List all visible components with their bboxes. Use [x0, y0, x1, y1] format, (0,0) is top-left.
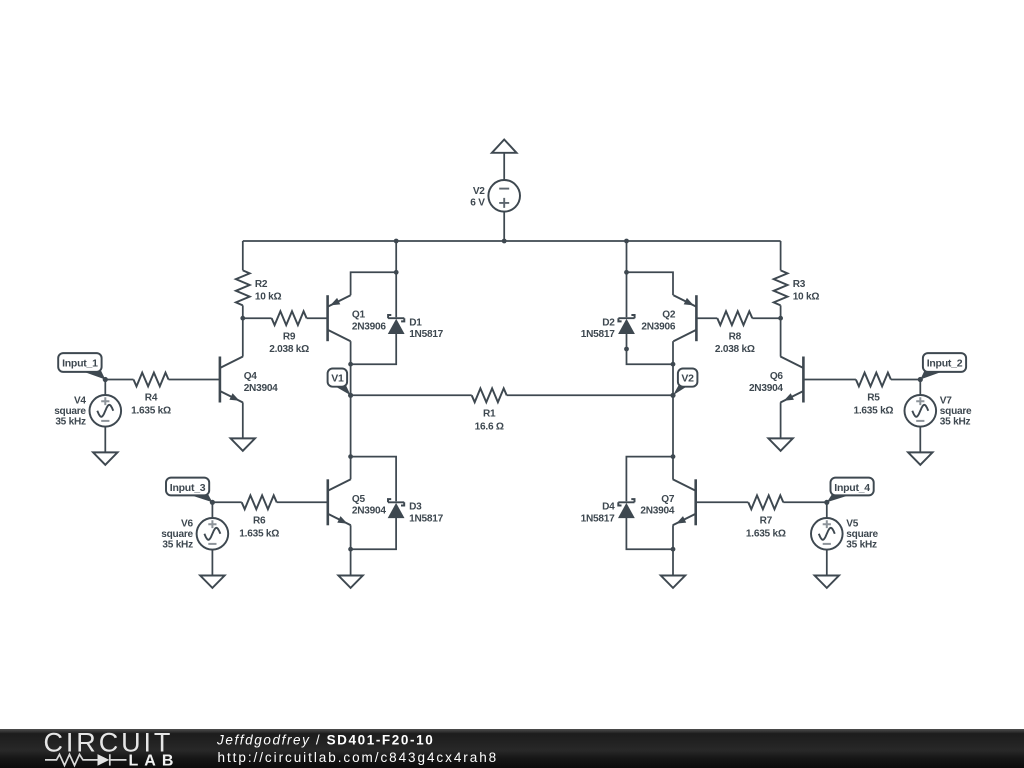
voltage source V6: [161, 518, 228, 551]
diode D1: [388, 315, 444, 340]
svg-text:35 kHz: 35 kHz: [162, 540, 193, 551]
wire V4 to ground: [104, 427, 106, 453]
svg-text:Q1: Q1: [352, 310, 366, 321]
svg-text:V4: V4: [74, 396, 86, 407]
svg-text:1N5817: 1N5817: [581, 329, 615, 340]
svg-text:2.038 kΩ: 2.038 kΩ: [269, 344, 309, 355]
wire V2 source to power flag: [503, 153, 505, 180]
transistor Q4: [220, 357, 278, 403]
svg-text:Input_2: Input_2: [927, 357, 963, 369]
flag Input_3: [166, 478, 215, 505]
svg-text:D2: D2: [602, 317, 615, 328]
wire V7 to input node: [919, 380, 921, 396]
svg-text:D4: D4: [602, 502, 615, 513]
node bus-D1 junction: [394, 239, 399, 244]
wire V7 to ground: [919, 427, 921, 453]
svg-text:2N3904: 2N3904: [749, 383, 783, 394]
svg-text:2.038 kΩ: 2.038 kΩ: [715, 344, 755, 355]
voltage source V7: [905, 395, 973, 428]
svg-text:R4: R4: [145, 393, 158, 404]
voltage source V5: [811, 518, 879, 551]
wire node V2 to D4 cathode: [626, 457, 673, 502]
resistor R5: [803, 373, 920, 417]
transistor Q5: [328, 479, 387, 525]
node D1-emitter junction: [394, 270, 399, 275]
voltage source V2: [470, 180, 520, 212]
svg-text:Jeffdgodfrey / SD401-F20-10: Jeffdgodfrey / SD401-F20-10: [216, 733, 434, 748]
svg-text:2N3906: 2N3906: [352, 322, 386, 333]
wire Q7 collector stub: [672, 457, 674, 480]
ground below Q7: [661, 576, 685, 588]
wire Q7 emitter to junction: [672, 525, 674, 549]
wire D3 anode to Q5 emitter: [351, 518, 397, 550]
wire V5 to ground: [826, 550, 828, 576]
node R2-R9-Q4 junction: [240, 316, 245, 321]
svg-text:D1: D1: [409, 317, 422, 328]
wire Q2 emitter to D2 branch: [627, 272, 674, 295]
svg-text:1.635 kΩ: 1.635 kΩ: [746, 528, 786, 539]
svg-text:R8: R8: [729, 331, 742, 342]
svg-text:10 kΩ: 10 kΩ: [255, 291, 282, 302]
svg-text:V1: V1: [331, 373, 344, 385]
svg-text:V2: V2: [681, 373, 694, 385]
wire D2 anode to Q2 collector: [627, 334, 674, 365]
wire V6 to ground: [211, 550, 213, 576]
svg-text:square: square: [846, 529, 878, 540]
svg-text:R3: R3: [793, 279, 806, 290]
ground below Q4: [231, 438, 255, 450]
svg-text:square: square: [54, 406, 86, 417]
node bus-D2 junction: [624, 239, 629, 244]
wire Q2 collector to node V2: [672, 341, 674, 456]
svg-text:R5: R5: [867, 393, 880, 404]
diode D4: [581, 499, 635, 524]
flag Input_4: [824, 478, 874, 505]
svg-text:square: square: [161, 529, 193, 540]
transistor Q1: [328, 295, 387, 341]
svg-text:2N3904: 2N3904: [244, 383, 278, 394]
svg-text:V5: V5: [846, 519, 858, 530]
diode D2: [581, 315, 635, 340]
node flag V2: [670, 369, 697, 398]
svg-text:square: square: [940, 406, 972, 417]
transistor Q7: [640, 479, 695, 525]
resistor R8: [696, 311, 780, 355]
node bus-V2 junction: [502, 239, 507, 244]
svg-text:Q2: Q2: [662, 310, 676, 321]
svg-text:2N3906: 2N3906: [641, 322, 675, 333]
voltage source V4: [54, 395, 121, 428]
svg-text:Input_4: Input_4: [834, 482, 870, 494]
svg-text:http://circuitlab.com/c843g4cx: http://circuitlab.com/c843g4cx4rah8: [218, 750, 499, 765]
node D2-emitter junction: [624, 270, 629, 275]
svg-text:10 kΩ: 10 kΩ: [793, 291, 820, 302]
svg-text:R2: R2: [255, 279, 268, 290]
wire Q6 emitter to ground: [780, 402, 782, 438]
ground below Q5: [338, 576, 362, 588]
svg-text:Input_1: Input_1: [62, 357, 98, 369]
node D1-Q1 collector junction: [348, 362, 353, 367]
svg-text:LAB: LAB: [129, 753, 180, 768]
wire bus to D2 cathode: [626, 241, 628, 317]
wire Q1 emitter to D1 branch: [351, 272, 397, 295]
svg-text:R7: R7: [760, 516, 773, 527]
node flag V1: [328, 369, 354, 398]
svg-text:R1: R1: [483, 409, 496, 420]
wire V2 source to bus: [503, 212, 505, 241]
wire Q5 collector stub: [350, 457, 352, 480]
ground below Q6: [768, 438, 792, 450]
resistor R3: [774, 241, 820, 318]
resistor R1: [351, 388, 673, 432]
wire top supply bus: [243, 240, 781, 242]
svg-text:V7: V7: [940, 396, 952, 407]
svg-text:16.6 Ω: 16.6 Ω: [475, 421, 504, 432]
transistor Q2: [641, 295, 696, 341]
svg-text:6 V: 6 V: [470, 198, 485, 209]
svg-text:V2: V2: [473, 186, 485, 197]
node V2-Q7 collector junction: [671, 454, 676, 459]
svg-text:V6: V6: [181, 519, 193, 530]
svg-text:R6: R6: [253, 516, 266, 527]
wire Q5 emitter to ground: [350, 549, 352, 575]
wire D1 anode to Q1 collector: [351, 334, 397, 365]
svg-text:D3: D3: [409, 502, 422, 513]
flag Input_2: [918, 353, 966, 382]
node R3-R8-Q6 junction: [778, 316, 783, 321]
node D2-Q2 collector junction: [671, 362, 676, 367]
svg-text:1.635 kΩ: 1.635 kΩ: [239, 528, 279, 539]
svg-text:Input_3: Input_3: [170, 482, 206, 494]
wire Q4 emitter to ground: [242, 402, 244, 438]
svg-text:Q5: Q5: [352, 494, 366, 505]
svg-text:35 kHz: 35 kHz: [846, 540, 877, 551]
svg-text:1N5817: 1N5817: [581, 513, 615, 524]
power supply flag: [492, 140, 517, 153]
wire Q7 emitter to ground: [672, 549, 674, 575]
ground below V6: [200, 576, 224, 588]
wire V4 to input node: [104, 380, 106, 396]
wire Q4 collector to R2 node: [242, 318, 244, 356]
resistor R2: [236, 241, 282, 318]
svg-text:Q4: Q4: [244, 371, 258, 382]
svg-text:Q6: Q6: [770, 371, 784, 382]
wire Q1 collector to node V1: [350, 341, 352, 456]
transistor Q6: [749, 357, 803, 403]
svg-text:35 kHz: 35 kHz: [55, 417, 86, 428]
CircuitLab logo resistor-diode symbol: [45, 754, 127, 765]
wire D4 anode to Q7 emitter: [626, 518, 673, 550]
ground below V5: [815, 576, 839, 588]
svg-text:2N3904: 2N3904: [352, 506, 386, 517]
svg-text:1.635 kΩ: 1.635 kΩ: [854, 406, 894, 417]
flag Input_1: [58, 353, 108, 382]
node Q7 emitter-D4 junction: [671, 547, 676, 552]
node Q5 emitter-D3 junction: [348, 547, 353, 552]
svg-text:1.635 kΩ: 1.635 kΩ: [131, 406, 171, 417]
wire V5 to input node: [826, 502, 828, 518]
wire node V1 to D3 cathode: [351, 457, 397, 502]
resistor R7: [696, 495, 827, 539]
svg-text:2N3904: 2N3904: [640, 506, 674, 517]
node D2 anode wire junction: [624, 347, 629, 352]
wire bus to D1 cathode: [395, 241, 397, 317]
svg-text:Q7: Q7: [661, 494, 675, 505]
footer bar: [0, 729, 1024, 768]
svg-text:35 kHz: 35 kHz: [940, 417, 971, 428]
node V1-Q5 collector junction: [348, 454, 353, 459]
svg-text:R9: R9: [283, 331, 296, 342]
svg-text:1N5817: 1N5817: [409, 513, 443, 524]
resistor R4: [105, 373, 220, 417]
ground below V4: [93, 452, 117, 464]
ground below V7: [908, 452, 932, 464]
wire V6 to input node: [211, 502, 213, 518]
resistor R9: [243, 311, 328, 355]
wire Q5 emitter to junction: [350, 525, 352, 549]
wire Q6 collector to R3 node: [780, 318, 782, 356]
diode D3: [388, 499, 444, 524]
resistor R6: [212, 495, 327, 539]
svg-text:1N5817: 1N5817: [409, 329, 443, 340]
